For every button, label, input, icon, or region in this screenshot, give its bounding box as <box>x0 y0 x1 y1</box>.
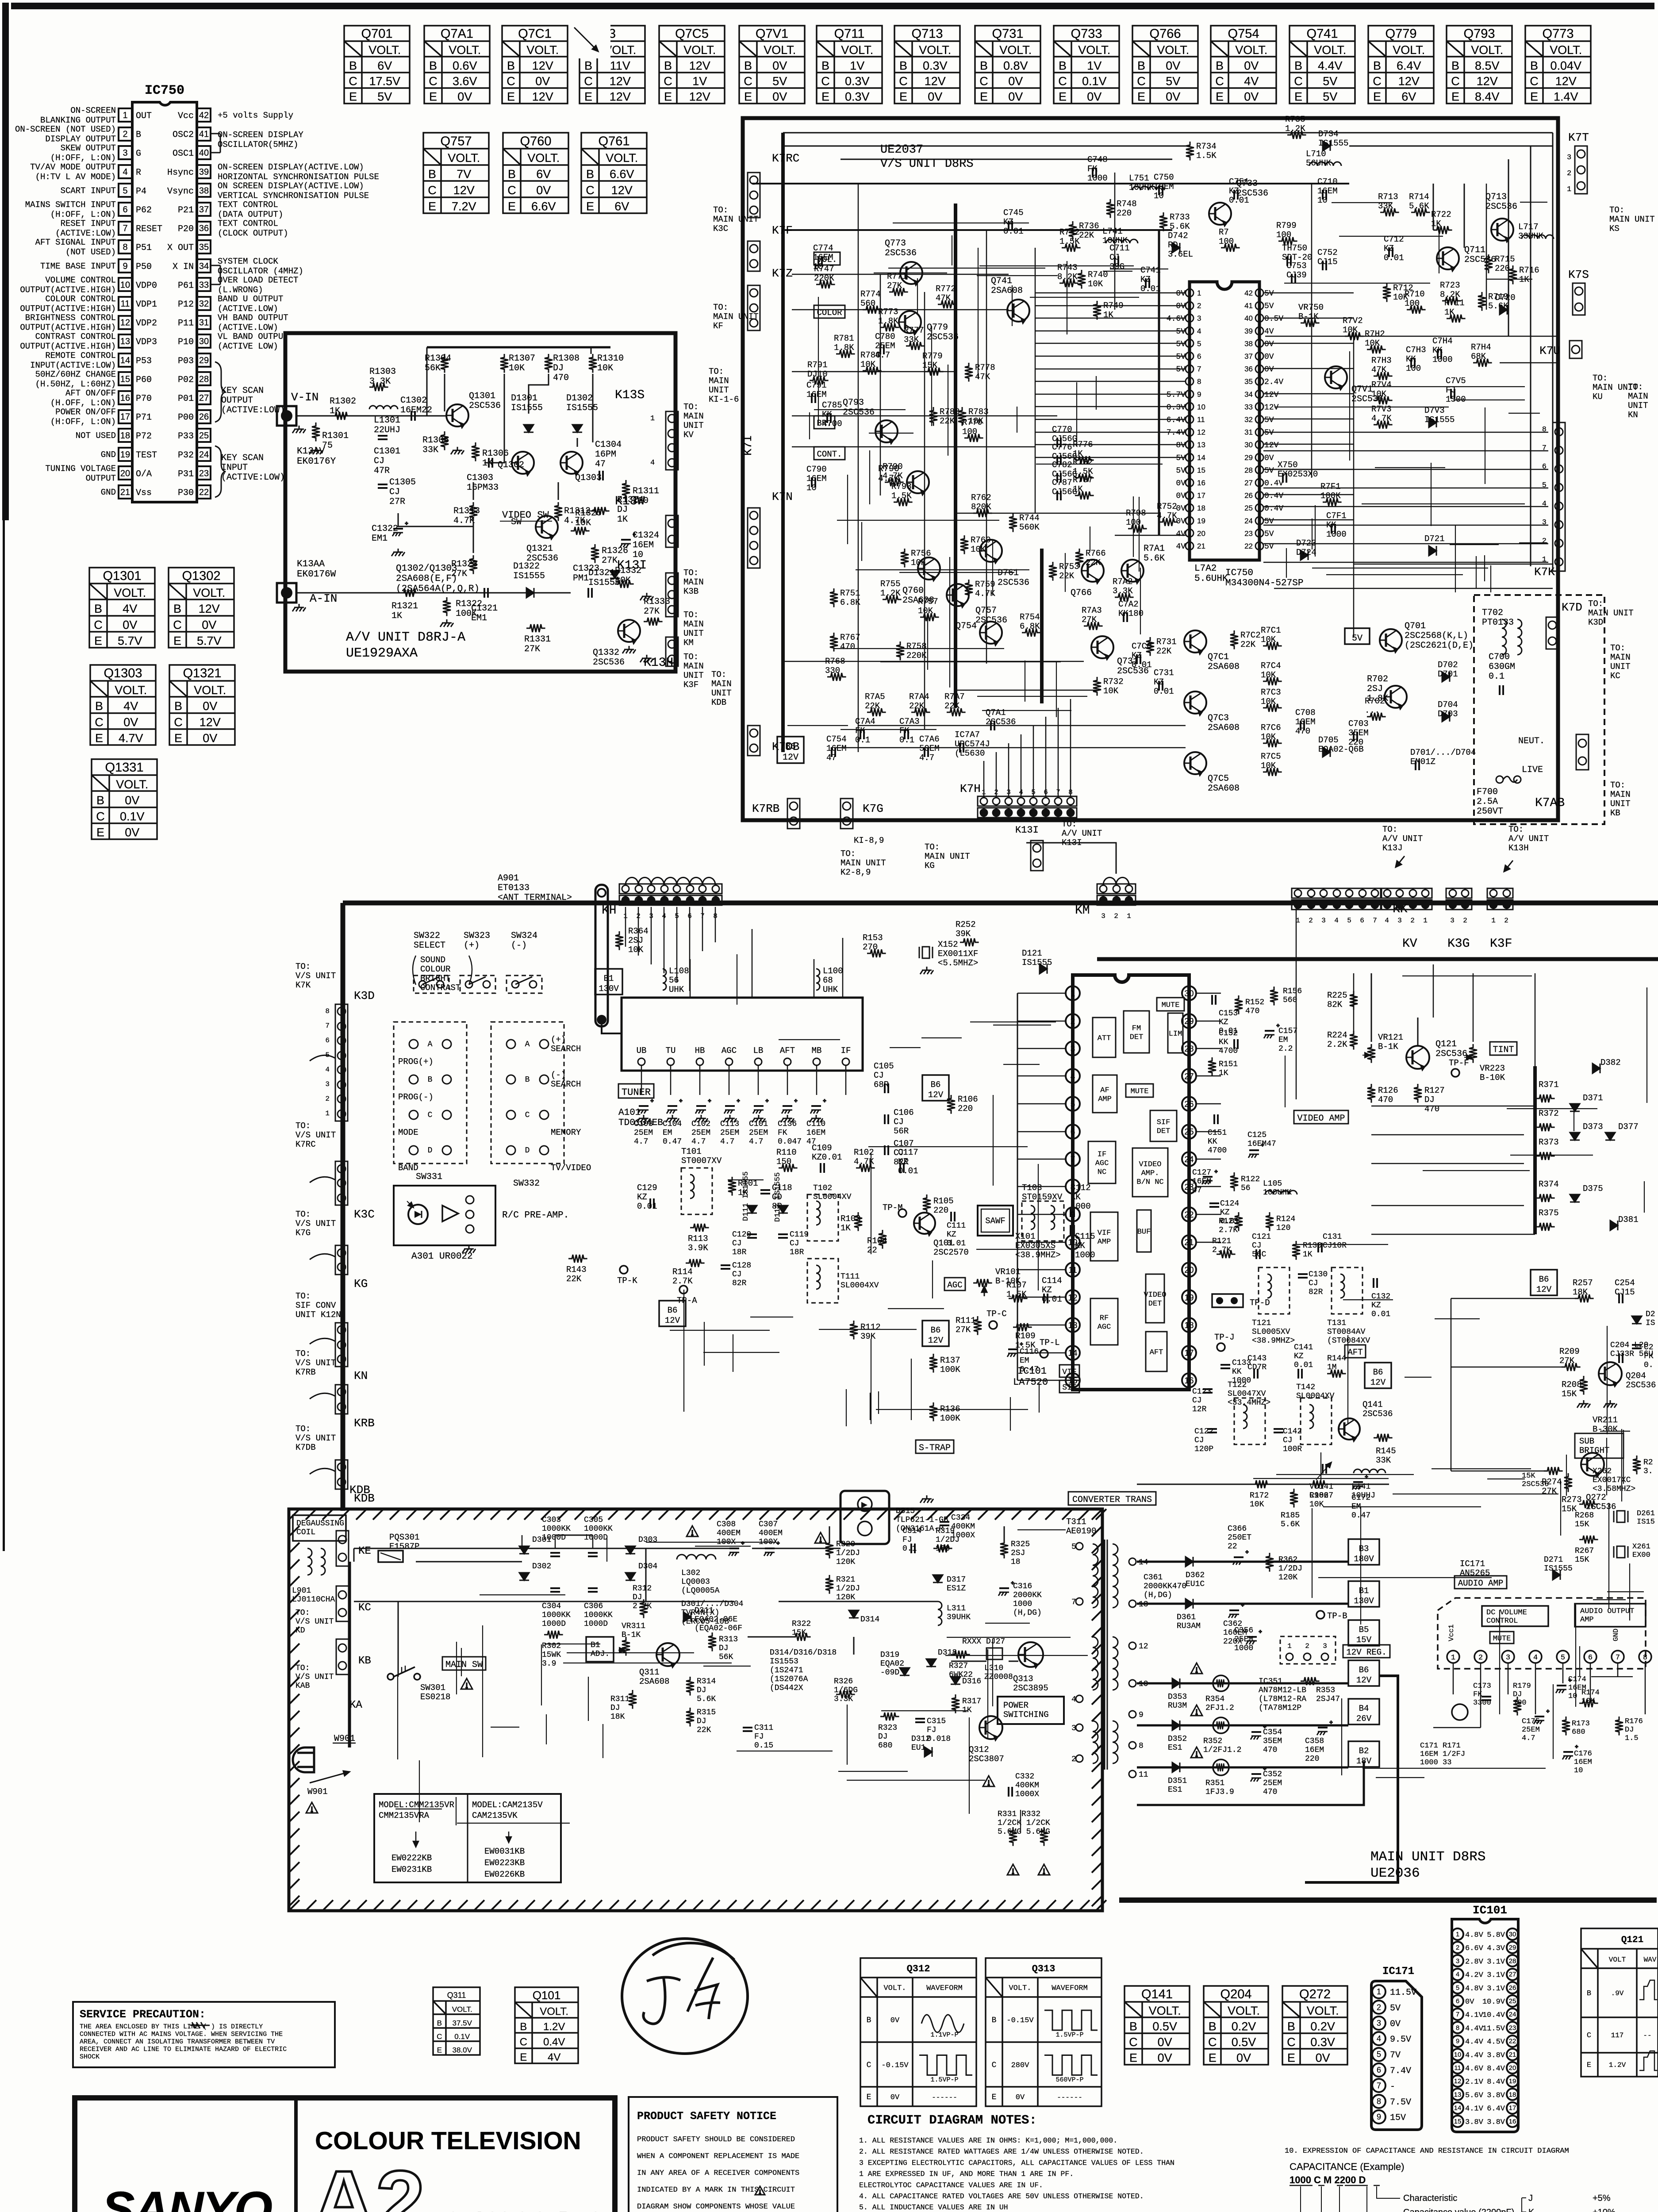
svg-text:40: 40 <box>1244 314 1253 323</box>
TP-L testpoint <box>1040 1350 1048 1358</box>
C306 capacitor <box>588 1588 598 1592</box>
svg-text:3.9: 3.9 <box>542 1659 556 1668</box>
svg-text:Vss: Vss <box>136 488 152 498</box>
svg-text:TO:: TO: <box>296 1291 311 1301</box>
svg-text:FM: FM <box>1132 1025 1141 1033</box>
VR311 pot <box>622 1637 630 1656</box>
svg-text:1.5VP-P: 1.5VP-P <box>930 2076 958 2084</box>
svg-text:TH750: TH750 <box>1282 243 1307 253</box>
R172 resistor <box>1252 1480 1271 1488</box>
D271 diode <box>1553 1570 1560 1580</box>
voltage table Q1321 <box>169 665 235 745</box>
svg-text:0V: 0V <box>1008 74 1023 88</box>
svg-text:E: E <box>980 90 988 104</box>
svg-text:27R: 27R <box>389 497 405 507</box>
svg-text:KK: KK <box>822 410 832 419</box>
svg-text:250VT: 250VT <box>1477 806 1503 817</box>
svg-text:2: 2 <box>123 130 127 139</box>
svg-text:Q121: Q121 <box>1621 1935 1643 1945</box>
connector K13I mid <box>1031 841 1043 871</box>
svg-text:DJ: DJ <box>719 1644 729 1653</box>
R106 resistor <box>947 1095 955 1114</box>
wire net a9 <box>398 513 473 526</box>
svg-text:D319: D319 <box>880 1651 899 1659</box>
svg-text:IS1555: IS1555 <box>1318 138 1348 148</box>
svg-text:TP-F: TP-F <box>1449 1058 1469 1068</box>
svg-text:C741: C741 <box>1140 265 1161 275</box>
svg-text:2SC536: 2SC536 <box>975 615 1007 626</box>
svg-text:K3C: K3C <box>354 1208 375 1221</box>
svg-text:COLOUR: COLOUR <box>420 964 450 974</box>
transistor Q101 <box>914 1213 935 1237</box>
svg-text:Q272: Q272 <box>1299 1987 1331 2001</box>
svg-text:2SA608: 2SA608 <box>1208 783 1240 794</box>
svg-text:ST0007XV: ST0007XV <box>681 1156 722 1166</box>
svg-text:18R: 18R <box>732 1248 747 1257</box>
svg-text:5: 5 <box>1071 1543 1076 1551</box>
svg-text:R371: R371 <box>1539 1080 1559 1090</box>
svg-text:100K: 100K <box>1320 491 1341 501</box>
svg-text:C: C <box>1587 2032 1591 2040</box>
svg-text:400KM: 400KM <box>1015 1781 1039 1790</box>
capacitor C712 <box>1389 247 1393 257</box>
R126 resistor <box>1367 1084 1375 1103</box>
svg-text:KK: KK <box>1219 1038 1228 1047</box>
svg-text:0V: 0V <box>203 699 217 713</box>
svg-text:CHASSIS SERIES: CHASSIS SERIES <box>446 2208 602 2212</box>
X261 crystal <box>1614 1546 1628 1558</box>
svg-text:C: C <box>1451 74 1460 88</box>
R322 resistor <box>792 1633 811 1641</box>
svg-text:R111: R111 <box>956 1316 976 1325</box>
R173 resistor <box>1562 1717 1570 1736</box>
D351 diode <box>1172 1763 1180 1772</box>
svg-text:10EM: 10EM <box>1295 717 1316 727</box>
svg-text:KV: KV <box>1402 937 1417 951</box>
svg-text:0V: 0V <box>1390 2019 1401 2029</box>
svg-text:2SJ: 2SJ <box>1011 1549 1025 1558</box>
T311 tap 14 <box>1129 1558 1136 1565</box>
svg-text:C780: C780 <box>875 332 895 342</box>
svg-text:25: 25 <box>1509 1997 1516 2005</box>
svg-text:R156: R156 <box>1283 987 1302 996</box>
T101 dashed box <box>681 1168 712 1214</box>
D352 diode <box>1172 1720 1180 1730</box>
svg-text:16EM47: 16EM47 <box>1247 1140 1276 1148</box>
svg-text:4: 4 <box>1533 1654 1538 1662</box>
svg-text:4.7K: 4.7K <box>453 516 475 526</box>
transformer T311 primary <box>1093 1544 1098 1608</box>
svg-text:2: 2 <box>1410 917 1415 925</box>
svg-text:12V: 12V <box>532 90 553 104</box>
svg-text:R208: R208 <box>1562 1380 1582 1390</box>
svg-text:(1S2076A: (1S2076A <box>770 1675 808 1684</box>
wire IC101 left rail <box>1017 993 1018 1380</box>
svg-text:R714: R714 <box>1409 192 1429 202</box>
svg-text:0.: 0. <box>1644 1361 1654 1370</box>
svg-text:6.4V: 6.4V <box>1487 2105 1505 2113</box>
svg-text:47K: 47K <box>975 372 990 382</box>
resistor R7C5 <box>1263 768 1282 776</box>
svg-text:KA: KA <box>349 1699 362 1711</box>
svg-text:22K: 22K <box>944 701 960 711</box>
svg-text:3.3K: 3.3K <box>834 1695 853 1704</box>
svg-text:C791: C791 <box>806 380 827 390</box>
svg-text:VR101: VR101 <box>995 1267 1021 1277</box>
svg-text:4.1V: 4.1V <box>1465 2105 1484 2113</box>
L105 coil <box>1265 1190 1297 1194</box>
T311 core lines <box>1105 1540 1107 1770</box>
svg-text:A/V UNIT D8RJ-A: A/V UNIT D8RJ-A <box>346 630 465 645</box>
svg-text:R327: R327 <box>949 1662 968 1671</box>
svg-text:R7: R7 <box>1219 227 1229 237</box>
svg-text:R315: R315 <box>697 1708 716 1717</box>
svg-text:MEMORY: MEMORY <box>551 1128 581 1137</box>
C121 capacitor <box>1256 1249 1260 1259</box>
svg-text:C782: C782 <box>1052 460 1072 470</box>
svg-text:C: C <box>96 810 105 823</box>
svg-text:18K: 18K <box>1573 1287 1588 1297</box>
svg-text:ELECTROLYTOC CAPACITANCE VALUE: ELECTROLYTOC CAPACITANCE VALUES ARE IN U… <box>859 2181 1043 2189</box>
svg-text:VDP1: VDP1 <box>136 300 157 310</box>
svg-text:P31: P31 <box>178 469 194 479</box>
R373 resistor <box>1536 1152 1555 1160</box>
svg-text:6.8K: 6.8K <box>1020 622 1040 631</box>
svg-text:0V: 0V <box>1008 90 1023 104</box>
MUTE box audio <box>1490 1632 1514 1644</box>
resistor R7V3 <box>1374 421 1393 429</box>
connector K13H <box>666 637 678 666</box>
svg-text:3: 3 <box>1506 1654 1510 1662</box>
svg-text:DET: DET <box>1157 1127 1171 1136</box>
svg-text:25EM: 25EM <box>691 1129 710 1137</box>
svg-text:AUDIO OUTPUT: AUDIO OUTPUT <box>1580 1607 1634 1616</box>
diode D734 <box>1323 141 1330 151</box>
svg-text:22K: 22K <box>865 701 880 711</box>
svg-text:Q141: Q141 <box>1141 1987 1173 2001</box>
transformer T311 secondary <box>1113 1544 1118 1608</box>
svg-text:B: B <box>584 59 592 72</box>
svg-text:C174: C174 <box>1568 1675 1586 1684</box>
svg-text:8: 8 <box>1377 2097 1381 2106</box>
svg-text:IQEM: IQEM <box>1154 182 1174 192</box>
resistor R715 <box>1485 254 1493 273</box>
wire power rows2 <box>748 1526 1018 1661</box>
svg-text:R321: R321 <box>836 1575 855 1584</box>
svg-text:1 ARE EXPRESSED IN UF, AND MOR: 1 ARE EXPRESSED IN UF, AND MORE THAN 1 A… <box>859 2170 1074 2178</box>
svg-text:R104: R104 <box>867 1236 887 1246</box>
svg-text:Q773: Q773 <box>885 238 906 249</box>
svg-text:E: E <box>1209 2051 1217 2065</box>
svg-text:280V: 280V <box>1011 2061 1030 2070</box>
ground preamp <box>462 1245 476 1253</box>
L302 coil <box>677 1555 716 1559</box>
svg-text:CJ: CJ <box>1283 1436 1293 1445</box>
C142 capacitor <box>1274 1429 1283 1432</box>
resistor R7A2 <box>1115 593 1134 601</box>
svg-text:K7S: K7S <box>1568 268 1589 281</box>
svg-text:EM: EM <box>1020 1356 1029 1365</box>
svg-text:NC: NC <box>1098 1168 1106 1177</box>
wire vs top rail <box>752 183 1349 184</box>
wire IC101 right feeds <box>1196 993 1221 1242</box>
svg-text:0V: 0V <box>1087 90 1101 104</box>
svg-text:A2: A2 <box>312 2153 425 2212</box>
hatch mark sample <box>190 2022 210 2028</box>
svg-text:12V: 12V <box>199 602 220 615</box>
capacitor C780 <box>880 345 884 354</box>
svg-text:0V: 0V <box>1166 59 1180 72</box>
svg-text:16PM33: 16PM33 <box>467 483 499 493</box>
svg-text:(ST0084XV: (ST0084XV <box>1327 1336 1370 1345</box>
D371 diode <box>1570 1104 1580 1111</box>
transistor Q760 <box>918 557 940 582</box>
svg-text:C171 R171: C171 R171 <box>1420 1742 1461 1750</box>
resistor R1304 <box>441 354 449 373</box>
C143 capacitor <box>1254 1369 1258 1379</box>
svg-text:3 EXCEPTING ELECTROLYTIC CAPA: 3 EXCEPTING ELECTROLYTIC CAPACITORS, ALL… <box>859 2158 1174 2167</box>
svg-text:3.1V: 3.1V <box>1487 1985 1505 1993</box>
svg-text:14: 14 <box>1454 2104 1462 2112</box>
svg-text:VOLT.: VOLT. <box>452 2005 472 2014</box>
svg-text:B: B <box>821 59 829 72</box>
svg-text:4.7: 4.7 <box>1522 1734 1535 1743</box>
svg-text:B: B <box>429 59 437 72</box>
resistor R768 <box>827 673 846 681</box>
svg-text:B: B <box>1587 1989 1591 1998</box>
wire VS right verticals <box>1433 133 1553 566</box>
svg-text:Q7A1: Q7A1 <box>986 708 1006 718</box>
svg-text:(EQA02-06F: (EQA02-06F <box>695 1624 742 1633</box>
svg-text:R733: R733 <box>1170 212 1190 222</box>
C305 capacitor <box>588 1553 598 1556</box>
svg-text:E: E <box>1129 2051 1137 2065</box>
svg-text:D314: D314 <box>860 1615 879 1624</box>
svg-text:1.5K: 1.5K <box>891 491 912 501</box>
svg-text:CONTROL: CONTROL <box>1486 1617 1518 1625</box>
CONVERTER TRANS boxed label <box>1068 1492 1156 1505</box>
R143 resistor <box>568 1255 587 1263</box>
connector K3F <box>1487 888 1513 910</box>
svg-text:DET: DET <box>1130 1033 1144 1042</box>
svg-text:VOLT.: VOLT. <box>883 1984 906 1993</box>
C366 capacitor <box>1233 1550 1249 1565</box>
R274 resistor <box>1544 1467 1563 1475</box>
svg-text:-0.15V: -0.15V <box>881 2061 909 2070</box>
svg-text:CJ15: CJ15 <box>1615 1287 1635 1297</box>
svg-text:4: 4 <box>1377 2034 1381 2043</box>
svg-text:C790: C790 <box>806 465 827 474</box>
svg-text:Q1332: Q1332 <box>593 648 619 658</box>
svg-text:75: 75 <box>322 441 333 451</box>
svg-text:470: 470 <box>553 373 569 383</box>
svg-text:TP-D: TP-D <box>1250 1298 1270 1308</box>
svg-text:2.4V: 2.4V <box>1264 378 1283 387</box>
svg-text:BAND U OUTPUT: BAND U OUTPUT <box>218 294 283 304</box>
svg-text:1: 1 <box>1377 1987 1381 1996</box>
svg-text:120K: 120K <box>1278 1573 1297 1582</box>
R112 resistor <box>850 1321 858 1340</box>
svg-text:B: B <box>428 1075 433 1084</box>
tuner pins <box>638 1058 645 1065</box>
svg-text:Q7A1: Q7A1 <box>441 27 473 41</box>
svg-text:R783: R783 <box>968 407 989 417</box>
svg-text:EX0011XF: EX0011XF <box>938 949 978 959</box>
svg-text:PROG(-): PROG(-) <box>398 1092 434 1102</box>
R114 resistor <box>686 1259 705 1267</box>
T311 tap 3 <box>1076 1724 1083 1731</box>
svg-text:C: C <box>428 184 437 197</box>
voltage table Q701 <box>344 26 410 104</box>
svg-text:D112 IS1555: D112 IS1555 <box>774 1172 782 1222</box>
svg-text:-0.15V: -0.15V <box>1006 2016 1034 2025</box>
svg-text:X152: X152 <box>938 940 958 949</box>
svg-text:EM: EM <box>1278 1036 1288 1045</box>
label box CONT. <box>814 447 845 460</box>
svg-text:22K: 22K <box>1079 230 1094 240</box>
svg-text:B-1K: B-1K <box>1298 312 1319 322</box>
svg-text:TO:: TO: <box>1610 643 1625 653</box>
svg-text:4.8V: 4.8V <box>1465 1985 1484 1993</box>
svg-text:220: 220 <box>958 1104 973 1114</box>
D304 diode <box>626 1573 635 1580</box>
svg-text:C311: C311 <box>754 1724 773 1732</box>
svg-text:C: C <box>1373 74 1382 88</box>
svg-text:K7RB: K7RB <box>752 802 779 815</box>
capacitor C745 <box>1009 221 1012 230</box>
svg-text:VIDEO: VIDEO <box>1144 1291 1166 1299</box>
svg-text:1000: 1000 <box>1234 1644 1253 1653</box>
svg-text:Q1301: Q1301 <box>103 569 141 583</box>
svg-text:C7A3: C7A3 <box>899 717 920 726</box>
svg-text:T702: T702 <box>1482 608 1503 618</box>
voltage table Q7C3 (partially erased) <box>580 26 645 104</box>
svg-text:0V: 0V <box>1465 1998 1474 2006</box>
svg-text:2SC536: 2SC536 <box>998 578 1029 588</box>
logo block frame <box>75 2098 615 2212</box>
svg-text:CAM2135VK: CAM2135VK <box>472 1811 518 1820</box>
svg-text:K7N: K7N <box>772 490 793 503</box>
svg-text:P30: P30 <box>178 488 194 498</box>
svg-text:KEY SCAN: KEY SCAN <box>221 453 264 463</box>
C354 capacitor <box>1251 1725 1267 1740</box>
svg-text:17: 17 <box>1184 1349 1194 1358</box>
svg-text:0.047: 0.047 <box>778 1137 802 1146</box>
resistor R743 <box>1059 279 1078 287</box>
svg-text:100K: 100K <box>940 1365 960 1375</box>
svg-text:C710: C710 <box>1317 177 1338 187</box>
R225 resistor <box>1350 991 1358 1010</box>
transistor Q7C5 <box>1184 752 1206 776</box>
svg-text:2SC3807: 2SC3807 <box>969 1754 1004 1764</box>
svg-text:C354: C354 <box>1263 1728 1282 1737</box>
voltage table Q731 <box>975 26 1040 104</box>
svg-text:ZZ0008: ZZ0008 <box>984 1673 1013 1682</box>
svg-text:3: 3 <box>1101 912 1105 920</box>
transistor Q7C1 <box>1184 630 1206 655</box>
svg-text:E: E <box>520 2051 527 2063</box>
voltage table Q7A1 <box>424 26 490 104</box>
C316 capacitor <box>998 1581 1014 1596</box>
svg-text:TO:: TO: <box>683 652 699 662</box>
svg-text:1.8K: 1.8K <box>834 343 854 353</box>
svg-text:C104: C104 <box>663 1120 682 1129</box>
svg-text:TO:: TO: <box>296 1210 311 1219</box>
C133 capacitor <box>1220 1365 1230 1368</box>
svg-text:R7V3: R7V3 <box>1371 404 1392 414</box>
svg-text:B: B <box>992 2016 997 2025</box>
model table frame <box>374 1794 561 1882</box>
connector KC2 <box>336 1586 349 1621</box>
svg-text:Q1302/Q1303: Q1302/Q1303 <box>396 564 457 574</box>
svg-text:B: B <box>1530 59 1538 72</box>
capacitor TH750 <box>1287 256 1291 266</box>
svg-text:R760: R760 <box>971 535 991 545</box>
svg-text:DC VOLUME: DC VOLUME <box>1486 1609 1527 1617</box>
svg-text:0V: 0V <box>1316 2051 1330 2065</box>
svg-text:R124: R124 <box>1276 1215 1295 1224</box>
svg-text:AMP: AMP <box>1098 1095 1112 1104</box>
svg-text:11.5V: 11.5V <box>1482 2024 1505 2033</box>
svg-text:R374: R374 <box>1539 1179 1559 1189</box>
svg-text:Q766: Q766 <box>1150 27 1181 41</box>
fusible R352 <box>1213 1717 1229 1733</box>
capacitor Q7A1 <box>991 721 994 730</box>
C109 capacitor <box>821 1163 824 1173</box>
svg-text:Q741: Q741 <box>1307 27 1338 41</box>
svg-text:0V: 0V <box>125 794 139 807</box>
capacitor C113 <box>724 1099 740 1114</box>
SW331 circles <box>409 1040 418 1048</box>
svg-text:B: B <box>1209 2020 1217 2033</box>
svg-text:X261: X261 <box>1632 1543 1650 1551</box>
svg-text:2SJ: 2SJ <box>628 936 643 945</box>
svg-text:L7A2: L7A2 <box>1194 564 1217 574</box>
warning triangle r351 <box>1191 1747 1202 1758</box>
svg-text:R186: R186 <box>1309 1491 1328 1500</box>
resistor R1323 <box>469 555 477 574</box>
svg-text:R372: R372 <box>1539 1109 1559 1118</box>
resistor R755 <box>883 595 902 603</box>
svg-text:VOLT.: VOLT. <box>1149 2004 1181 2017</box>
svg-text:R716: R716 <box>1519 265 1539 275</box>
C174 capacitor <box>1556 1678 1572 1693</box>
svg-text:1/6DG: 1/6DG <box>834 1686 858 1695</box>
svg-text:21: 21 <box>1197 542 1205 550</box>
svg-text:4.3V: 4.3V <box>1487 1944 1505 1953</box>
resistor R7A7 <box>947 708 966 716</box>
VIDEO AMP boxed label <box>1294 1110 1348 1124</box>
svg-text:4: 4 <box>650 459 655 467</box>
C157 capacitor <box>1264 1024 1280 1038</box>
svg-text:C352: C352 <box>1263 1770 1282 1779</box>
resistor R734 <box>1186 142 1194 161</box>
svg-text:24: 24 <box>1184 1155 1194 1164</box>
svg-text:C7C0: C7C0 <box>1132 641 1152 651</box>
svg-text:C703: C703 <box>1348 719 1369 729</box>
svg-text:2FJ1.2: 2FJ1.2 <box>1205 1704 1234 1713</box>
svg-text:V/S UNIT: V/S UNIT <box>296 1130 336 1140</box>
svg-text:6.4V: 6.4V <box>1397 59 1421 72</box>
svg-text:4.5V: 4.5V <box>1487 2038 1505 2047</box>
svg-text:EM: EM <box>663 1129 672 1137</box>
svg-text:Q1301: Q1301 <box>469 391 495 401</box>
svg-text:UNIT: UNIT <box>683 421 704 430</box>
capacitor C1321 <box>484 588 488 598</box>
svg-text:D304: D304 <box>638 1562 657 1571</box>
svg-text:0V: 0V <box>123 618 137 631</box>
resistor R747 <box>816 280 835 288</box>
